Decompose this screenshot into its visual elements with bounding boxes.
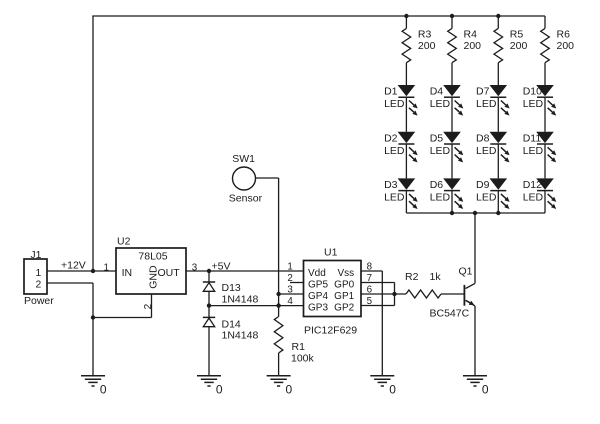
svg-text:1: 1 (35, 268, 41, 279)
svg-text:GND: GND (147, 265, 159, 289)
svg-text:LED: LED (430, 145, 451, 157)
svg-text:5: 5 (367, 296, 373, 307)
svg-text:D3: D3 (384, 179, 398, 191)
svg-text:LED: LED (430, 98, 451, 110)
svg-text:R4: R4 (464, 29, 478, 41)
svg-text:D9: D9 (476, 179, 490, 191)
svg-text:+5V: +5V (212, 260, 231, 272)
svg-text:R5: R5 (510, 29, 524, 41)
svg-text:GP5: GP5 (308, 280, 328, 291)
svg-text:D5: D5 (430, 132, 444, 144)
svg-text:200: 200 (464, 40, 482, 52)
svg-text:Power: Power (24, 295, 54, 307)
svg-text:BC547C: BC547C (430, 307, 470, 319)
svg-text:1N4148: 1N4148 (222, 329, 259, 341)
svg-text:R2: R2 (405, 271, 419, 283)
svg-text:200: 200 (510, 40, 528, 52)
svg-text:0: 0 (216, 382, 223, 396)
svg-text:LED: LED (523, 98, 544, 110)
svg-text:2: 2 (143, 303, 154, 309)
svg-text:R3: R3 (418, 29, 432, 41)
svg-text:Vss: Vss (338, 268, 355, 279)
svg-text:GP1: GP1 (334, 291, 354, 302)
svg-text:OUT: OUT (158, 267, 181, 279)
svg-text:GP0: GP0 (334, 280, 354, 291)
svg-text:D7: D7 (476, 86, 490, 98)
svg-text:J1: J1 (30, 249, 41, 261)
svg-text:78L05: 78L05 (138, 250, 167, 262)
svg-text:LED: LED (430, 192, 451, 204)
svg-text:Q1: Q1 (459, 266, 473, 278)
svg-text:D4: D4 (430, 86, 444, 98)
svg-text:+12V: +12V (61, 260, 86, 272)
svg-text:LED: LED (384, 98, 405, 110)
svg-text:3: 3 (287, 284, 293, 295)
svg-text:R1: R1 (292, 341, 306, 353)
svg-text:200: 200 (418, 40, 436, 52)
svg-text:1N4148: 1N4148 (222, 294, 259, 306)
svg-text:LED: LED (476, 192, 497, 204)
svg-text:LED: LED (476, 145, 497, 157)
svg-text:200: 200 (557, 40, 575, 52)
svg-text:0: 0 (482, 382, 489, 396)
svg-text:7: 7 (367, 273, 372, 284)
svg-text:D1: D1 (384, 86, 398, 98)
svg-text:1: 1 (104, 262, 109, 273)
svg-text:LED: LED (523, 145, 544, 157)
svg-text:GP2: GP2 (334, 303, 354, 314)
svg-text:U1: U1 (324, 247, 338, 259)
svg-text:D6: D6 (430, 179, 444, 191)
svg-text:2: 2 (35, 280, 41, 291)
svg-text:GP3: GP3 (308, 303, 328, 314)
svg-text:Vdd: Vdd (308, 268, 326, 279)
svg-text:1k: 1k (430, 271, 442, 283)
svg-text:2: 2 (287, 273, 292, 284)
svg-text:GP4: GP4 (308, 291, 328, 302)
svg-text:D2: D2 (384, 132, 398, 144)
svg-text:3: 3 (192, 262, 198, 273)
svg-text:PIC12F629: PIC12F629 (304, 324, 357, 336)
svg-text:4: 4 (287, 296, 293, 307)
svg-text:0: 0 (100, 382, 107, 396)
svg-text:8: 8 (367, 261, 373, 272)
svg-text:R6: R6 (557, 29, 571, 41)
svg-text:LED: LED (476, 98, 497, 110)
svg-text:SW1: SW1 (232, 153, 255, 165)
svg-text:100k: 100k (291, 353, 315, 365)
svg-text:LED: LED (523, 192, 544, 204)
svg-text:1: 1 (287, 261, 292, 272)
svg-text:D8: D8 (476, 132, 490, 144)
svg-text:Sensor: Sensor (229, 193, 263, 205)
svg-text:0: 0 (389, 382, 396, 396)
svg-text:U2: U2 (117, 236, 131, 248)
svg-text:6: 6 (367, 284, 373, 295)
svg-text:LED: LED (384, 192, 405, 204)
svg-text:IN: IN (122, 267, 133, 279)
svg-text:LED: LED (384, 145, 405, 157)
svg-text:D13: D13 (222, 282, 241, 294)
svg-text:0: 0 (286, 382, 293, 396)
